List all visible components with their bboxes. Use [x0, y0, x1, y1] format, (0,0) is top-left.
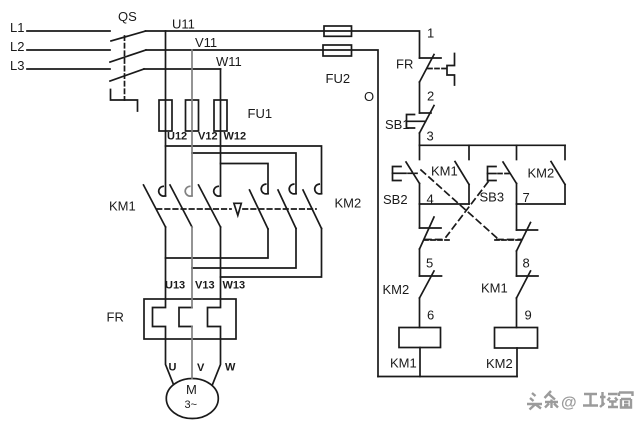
svg-text:SB3: SB3: [480, 190, 505, 205]
svg-text:V12: V12: [198, 131, 218, 143]
svg-text:V13: V13: [195, 280, 215, 292]
svg-text:4: 4: [427, 192, 434, 207]
svg-text:8: 8: [523, 256, 530, 271]
svg-text:W11: W11: [216, 54, 242, 69]
svg-text:KM2: KM2: [528, 166, 555, 181]
svg-text:U: U: [169, 362, 177, 374]
svg-text:L3: L3: [10, 58, 24, 73]
svg-text:KM1: KM1: [390, 356, 417, 371]
svg-text:V11: V11: [195, 35, 217, 50]
svg-text:U13: U13: [165, 280, 185, 292]
svg-text:FR: FR: [107, 310, 124, 325]
svg-text:KM1: KM1: [481, 281, 508, 296]
svg-text:FU1: FU1: [248, 106, 273, 121]
svg-text:@: @: [561, 395, 577, 412]
svg-text:KM2: KM2: [383, 282, 410, 297]
svg-text:KM2: KM2: [335, 196, 362, 211]
svg-text:2: 2: [427, 89, 434, 104]
svg-text:M: M: [186, 382, 197, 397]
svg-text:7: 7: [523, 190, 530, 205]
svg-text:W12: W12: [224, 131, 247, 143]
svg-text:KM1: KM1: [431, 164, 458, 179]
svg-text:KM1: KM1: [109, 199, 136, 214]
svg-text:L2: L2: [10, 39, 24, 54]
svg-text:V: V: [197, 362, 205, 374]
svg-text:9: 9: [525, 308, 532, 323]
svg-text:W: W: [225, 362, 236, 374]
svg-text:1: 1: [427, 26, 434, 41]
svg-text:5: 5: [426, 256, 433, 271]
svg-text:6: 6: [427, 308, 434, 323]
svg-text:W13: W13: [223, 280, 246, 292]
svg-text:O: O: [364, 89, 374, 104]
svg-text:U12: U12: [167, 131, 187, 143]
svg-text:QS: QS: [118, 9, 137, 24]
svg-text:FU2: FU2: [326, 71, 351, 86]
svg-text:L1: L1: [10, 20, 24, 35]
svg-text:KM2: KM2: [486, 356, 513, 371]
svg-text:3: 3: [427, 129, 434, 144]
svg-text:FR: FR: [396, 57, 413, 72]
svg-text:3~: 3~: [185, 399, 198, 411]
svg-text:SB1: SB1: [385, 117, 410, 132]
svg-text:SB2: SB2: [383, 192, 408, 207]
svg-text:U11: U11: [172, 17, 195, 32]
